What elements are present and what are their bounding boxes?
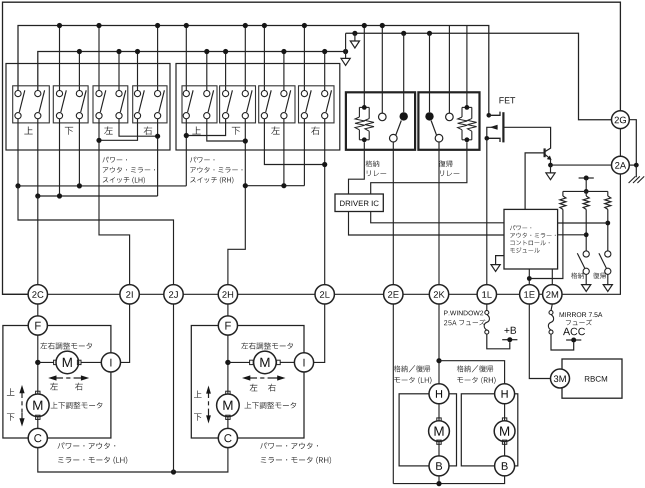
connector 2G bbox=[612, 111, 630, 129]
switch LH-上-2 bbox=[35, 91, 41, 97]
label : power outer mirror switch (RH) caption bbox=[190, 157, 215, 163]
wire : drop from bus A to return-relay coil bbox=[466, 26, 468, 106]
wire : drop from bus B to switch contact at x=119 bbox=[118, 52, 120, 91]
wire : bus to connector 2C (y=196) bbox=[38, 195, 158, 197]
wire : drop from bus A to switch contact at x=304.4 bbox=[303, 26, 305, 91]
wire : connector 2K down to H bus bbox=[438, 304, 440, 384]
label : RBCM bbox=[585, 376, 607, 382]
label 左 under LH box bbox=[104, 126, 112, 134]
switch RH-上-2 bbox=[204, 91, 210, 97]
connector 2K bbox=[429, 285, 448, 304]
resistor R1 bbox=[562, 191, 564, 196]
connector 3M bbox=[551, 369, 570, 388]
switch box LH-左 : contact pair box bbox=[93, 86, 128, 123]
label : up / down (RH) bbox=[194, 391, 202, 398]
wire : drop from bus B to switch contact at x=137.5 bbox=[137, 52, 139, 91]
label : MIRROR 7.5A fuse bbox=[560, 312, 603, 317]
wire : LH mirror-right contact down and across to left-adjust line bbox=[99, 119, 138, 141]
connector 2A bbox=[612, 156, 630, 174]
switch bank LH : outer box of power outer mirror switch (LH) bbox=[6, 64, 170, 151]
wire C : relay contact bus y=33.3 from bus B junction to connector 2G bbox=[345, 33, 347, 51]
relay K2 : return relay box bbox=[418, 92, 479, 150]
arrow : left-right travel arrow (LH) bbox=[54, 377, 84, 379]
wire : 2H to terminal F (RH) bbox=[227, 304, 229, 316]
switch box LH-上 : contact pair box bbox=[13, 86, 50, 123]
wire : switch drop to 2J bus bbox=[17, 119, 19, 186]
terminal F (LH) bbox=[28, 316, 47, 335]
node : junction on right-adjust line bbox=[155, 134, 160, 139]
switch RH-上-1 bbox=[183, 91, 189, 97]
IC U1 : DRIVER IC box bbox=[335, 194, 383, 212]
terminal H (RH) bbox=[495, 384, 515, 404]
switch LH-右-1 bbox=[134, 91, 140, 97]
module : storage/return motor (LH) box bbox=[399, 394, 456, 466]
wire : 2C feed line down to connector 2C bbox=[37, 196, 39, 285]
resistor R3 bbox=[607, 191, 609, 196]
wire : connector 2J down to C bus bbox=[173, 304, 175, 472]
terminal F (RH) bbox=[218, 316, 237, 335]
transistor Q1 : FET source stub bbox=[487, 138, 500, 142]
wire : FET source down to connector 1L bbox=[486, 138, 488, 284]
wire : hook from 2G to ground node bbox=[629, 120, 636, 165]
wire : switch drop to 2C bus at x=59.5 bbox=[59, 119, 61, 196]
contact : return relay movable arm bbox=[435, 134, 443, 142]
fuse F1 : P.WINDOW2 25A fuse below connector 1L bbox=[486, 304, 488, 311]
terminal H (LH) bbox=[429, 384, 449, 404]
node : branch to horizontal motor (RH) bbox=[225, 360, 230, 365]
wire : feed to resistor bus bbox=[585, 178, 587, 191]
label : DRIVER IC bbox=[340, 201, 379, 207]
wire : module to R2 node bbox=[558, 234, 587, 236]
connector 2C bbox=[28, 285, 47, 304]
arrow : up-down travel arrow (LH) bbox=[21, 391, 23, 420]
wire A : upper supply bus y=25.5 feeding switch contacts, ends at FET gate bbox=[18, 26, 489, 116]
label : storage/return motor (LH) bbox=[394, 365, 430, 372]
label : left-right adjust motor (RH) bbox=[241, 342, 293, 349]
wire : R2 lead down to return-position sense switch bbox=[585, 209, 587, 251]
switch RH-左-1 bbox=[261, 91, 267, 97]
wire : drop from wire C to storage-relay NO contact bbox=[401, 31, 406, 36]
motor M3 : left-right adjust motor (RH) bbox=[228, 361, 250, 363]
wire : F to C internal line (RH) bbox=[227, 335, 229, 428]
wire : B bus across bottom bbox=[393, 476, 504, 484]
label 上 under LH box bbox=[24, 127, 32, 135]
wire : connector 1E down to 3M bbox=[529, 304, 550, 379]
wire : M to B link (LH) bbox=[438, 441, 440, 456]
connector 2M bbox=[543, 285, 562, 304]
switch box LH-下 : contact pair box bbox=[53, 86, 88, 123]
label : control module caption bbox=[510, 225, 531, 230]
ground : chassis ground symbol bbox=[635, 165, 637, 177]
wire : 2C to terminal F bbox=[37, 304, 39, 316]
ground arrow : below storage sense switch bbox=[585, 274, 587, 284]
label 左 under RH box bbox=[271, 126, 279, 134]
wire : main power loop from 2C left side up across the top and down to connector 2G bbox=[3, 2, 621, 294]
module : power outer mirror control module box bbox=[504, 209, 558, 269]
switch LH-上-1 bbox=[15, 91, 21, 97]
wire : R3 lead down to storage-position sense switch bbox=[607, 209, 609, 251]
wire : RH bus y=185.7 between drive lines bbox=[245, 185, 304, 187]
wire : drop from bus B to switch contact at x=225.6 bbox=[225, 52, 227, 91]
switch bank RH : outer box of power outer mirror switch (RH) bbox=[176, 64, 340, 151]
wire : module to R3 node bbox=[558, 222, 608, 224]
wire : return relay arm down to connector 2K bbox=[438, 142, 440, 285]
resistor R2 bbox=[585, 191, 587, 196]
label : return relay bbox=[439, 160, 453, 167]
switch box LH-右 : contact pair box bbox=[133, 86, 167, 123]
connector 2H bbox=[218, 285, 237, 304]
wire : link between connectors 2G and 2A bbox=[619, 129, 621, 157]
switch RH-下-1 bbox=[223, 91, 229, 97]
terminal I (LH) bbox=[101, 353, 120, 372]
contact : storage relay NC terminal bbox=[379, 113, 387, 121]
label : up / down (LH) bbox=[7, 388, 15, 395]
label : left / right (RH) bbox=[250, 384, 258, 391]
wire : 2J bus down and right to connector 2J bbox=[18, 186, 174, 285]
connector 2I bbox=[120, 285, 139, 304]
terminal I (RH) bbox=[294, 353, 313, 372]
node : junction of mirror-right line on left-adjust line bbox=[96, 138, 101, 143]
wire : RH lower-left contact across to upper-left line bbox=[186, 119, 225, 136]
label : FET bbox=[500, 97, 516, 103]
module : power outer mirror motor (RH) box bbox=[191, 326, 304, 439]
wire : drop from bus A to switch contact at x=59.5 bbox=[59, 26, 61, 91]
wire : module pin to connector 2M bbox=[551, 269, 553, 285]
node : junction on RH upper-left line bbox=[184, 133, 189, 138]
wire : LH left-contact down and across to right-adjust line bbox=[119, 119, 158, 136]
switch box RH-上 : contact pair box bbox=[182, 86, 217, 123]
wire : module pin to connector 1E with branch node bbox=[528, 269, 530, 285]
wire : switch drop to 2J bus at x=79.4 bbox=[78, 119, 80, 186]
wire : connector 2E down to B bus bbox=[392, 304, 394, 484]
label : power outer mirror switch (LH) caption bbox=[103, 157, 128, 163]
motor M2 : up-down adjust motor (LH) bbox=[36, 391, 40, 395]
wire : DRIVER IC pin to control module (upper) bbox=[371, 212, 504, 223]
wire : R1 lead down then left to 1E node bbox=[529, 209, 563, 278]
label 右 under RH box bbox=[311, 126, 320, 134]
wire : LH left-adjust output line to jog toward connector 2I bbox=[99, 119, 130, 285]
wire : switch drop to 2C bus bbox=[37, 119, 39, 196]
terminal C (RH) bbox=[218, 428, 237, 447]
contact : return relay NO terminal bbox=[425, 112, 433, 120]
label 右 under LH box bbox=[144, 126, 153, 134]
motor M-RH : storage/return motor bbox=[502, 418, 506, 422]
motor M1 : left-right adjust motor (LH) bbox=[38, 361, 54, 363]
node : branch to horizontal motor bbox=[35, 360, 40, 365]
terminal C (LH) bbox=[28, 428, 47, 447]
wire : drop from bus A to switch contact at x=157.6 bbox=[157, 26, 159, 91]
contact : storage relay NO terminal bbox=[400, 112, 408, 120]
wire : drop from bus B to switch contact at x=206.8 bbox=[206, 52, 208, 91]
arrow : up-down travel arrow (RH) bbox=[208, 391, 210, 418]
wire : drop from bus B to switch contact at x=283.9 bbox=[283, 52, 285, 91]
wire : drop from bus A to storage-relay NC contact bbox=[381, 26, 383, 114]
switch box RH-右 : contact pair box bbox=[299, 86, 335, 123]
wire : emitter to connector 2A bbox=[550, 160, 552, 165]
switch : storage sense switch bbox=[583, 251, 589, 257]
wire : storage relay arm down to connector 2E bbox=[392, 142, 394, 285]
contact : storage relay movable arm bbox=[390, 134, 398, 142]
switch LH-下-2 bbox=[76, 91, 82, 97]
label : up-down adjust motor (LH) bbox=[51, 402, 103, 409]
wire : common C bus joining both mirror motors and connector 2J bbox=[38, 448, 228, 472]
wire : drop from bus A to return-relay NC contact bbox=[448, 26, 450, 114]
wire : H to M link (RH) bbox=[504, 404, 506, 421]
terminal B (LH) bbox=[429, 456, 449, 476]
wire : drop from bus A to switch contact at x=99 bbox=[98, 26, 100, 91]
motor M4 : up-down adjust motor (RH) bbox=[226, 391, 230, 395]
wire B : second supply bus y=51.5 feeding switch contacts bbox=[38, 52, 346, 91]
wire : terminal I to connector 2I bbox=[121, 304, 130, 362]
switch LH-左-1 bbox=[96, 91, 102, 97]
wire : LH right-adjust line down to bus toward 2C bbox=[157, 119, 159, 196]
switch LH-下-1 bbox=[56, 91, 62, 97]
wire : drop from bus A to switch contact at x=264.4 bbox=[263, 26, 265, 91]
fuse F2 : MIRROR 7.5A fuse below connector 2M bbox=[551, 304, 552, 311]
ground arrow : below bus B end bbox=[345, 52, 347, 59]
node : junction at right end of bus B bbox=[343, 49, 348, 54]
switch box RH-左 : contact pair box bbox=[259, 86, 295, 123]
label : power outer mirror motor (RH) caption bbox=[260, 442, 318, 449]
terminal : unlabeled supply bar feeding pull-up resistors bbox=[579, 177, 594, 179]
wire : fuse to ACC terminal bbox=[551, 334, 574, 350]
wire : transistor base to control module bbox=[525, 153, 545, 210]
wire : RH lower-right line down with jog to connector 2H bbox=[228, 119, 245, 285]
transistor Q1 : FET gate lead and plate bbox=[487, 113, 492, 118]
wire : M to B link (RH) bbox=[504, 441, 506, 456]
switch LH-左-2 bbox=[116, 91, 122, 97]
wire : H to M link (LH) bbox=[438, 404, 440, 421]
module : power outer mirror motor (LH) box bbox=[3, 326, 111, 439]
wire : drop from bus A to switch contact at x=245.3 bbox=[244, 26, 246, 91]
coil of return relay bbox=[462, 106, 472, 108]
contact : return relay NC terminal bbox=[446, 113, 454, 121]
label 上 under RH box bbox=[192, 127, 200, 135]
wire : return relay coil to DRIVER IC bbox=[371, 142, 467, 194]
switch : return sense switch bbox=[605, 251, 611, 257]
label 下 under RH box bbox=[232, 127, 240, 135]
wire : RH mirror-left contact drop to bus y=185.7 bbox=[303, 119, 305, 186]
motor M-LH : storage/return motor bbox=[437, 418, 441, 422]
label : P.WINDOW2 25A fuse bbox=[444, 311, 483, 316]
module : storage/return motor (RH) box bbox=[461, 394, 518, 466]
wire : DRIVER IC pin to control module (lower) bbox=[349, 212, 505, 236]
label : storage relay bbox=[366, 161, 380, 168]
wire : drop from bus B to switch contact at x=79.4 bbox=[78, 52, 80, 91]
wire : common bus to connector 2J (y=185.9) bbox=[18, 185, 186, 187]
label : left / right (LH) bbox=[50, 383, 58, 390]
ground arrow : below emitter node bbox=[550, 165, 552, 173]
label : return sense switch bbox=[593, 273, 606, 279]
switch RH-下-2 bbox=[242, 91, 248, 97]
wire : connector 2A down and left to connector 2M bbox=[562, 174, 620, 294]
connector 1L bbox=[477, 285, 496, 304]
connector 1E bbox=[520, 285, 539, 304]
switch RH-右-2 bbox=[322, 91, 328, 97]
label 下 under LH box bbox=[65, 127, 73, 135]
wire : drop from wire C to return-relay NO contact bbox=[427, 31, 432, 36]
wire : drop from bus A to switch contact at x=186.3 bbox=[185, 26, 187, 91]
label : storage/return motor (RH) bbox=[457, 365, 493, 372]
connector 2E bbox=[384, 285, 403, 304]
wire : fuse to +B terminal bbox=[487, 334, 510, 349]
wire : drop from bus B to switch contact at x=324.7 bbox=[324, 52, 326, 91]
connector 2L bbox=[315, 285, 334, 304]
wire : F to C internal line bbox=[37, 335, 39, 428]
transistor Q1 : FET channel bar bbox=[502, 112, 504, 142]
terminal +B bbox=[502, 339, 517, 341]
switch LH-右-2 bbox=[155, 91, 161, 97]
wire : RH contact drop to bus y=185.7 bbox=[283, 119, 285, 186]
wire : drop from bus A to storage-relay coil bbox=[363, 26, 365, 106]
switch box RH-下 : contact pair box bbox=[220, 86, 256, 123]
label : up-down adjust motor (RH) bbox=[245, 402, 297, 409]
wire : FET drain to transistor collector bbox=[503, 127, 550, 151]
wire : RH upper-right contact across to lower-right line bbox=[207, 119, 246, 141]
label : power outer mirror motor (LH) caption bbox=[58, 442, 116, 449]
connector 2J bbox=[164, 285, 183, 304]
terminal B (RH) bbox=[495, 456, 515, 476]
switch RH-右-1 bbox=[301, 91, 307, 97]
label : left-right adjust motor (LH) bbox=[40, 342, 92, 349]
switch RH-左-2 bbox=[281, 91, 287, 97]
coil of storage relay bbox=[359, 106, 369, 108]
wire : RH left-adjust contact across to 2L line bbox=[264, 119, 324, 165]
module : RBCM box bbox=[562, 359, 622, 398]
ground arrow : below return sense switch bbox=[607, 274, 609, 284]
wire : storage relay coil to DRIVER IC bbox=[349, 142, 365, 194]
wire : terminal I to connector 2L bbox=[314, 304, 325, 362]
wire : RH line down to connector 2L bbox=[324, 119, 326, 285]
wire : connector row bus bbox=[3, 293, 28, 295]
wire : H bus across to RH storage motor bbox=[439, 361, 505, 384]
transistor Q1 : FET body arrow stub bbox=[490, 125, 498, 130]
relay K1 : storage relay box bbox=[346, 92, 415, 150]
transistor Q2 : emitter with arrow bbox=[545, 154, 550, 158]
ground arrow : tap on wire C at x=354.9 bbox=[352, 31, 357, 36]
wire : RH upper-left line joining 2J bus bbox=[185, 119, 187, 186]
ground arrow : module left pin bbox=[496, 256, 504, 265]
wire : resistor top bus bbox=[563, 190, 608, 192]
transistor Q2 : bipolar transistor base bar bbox=[543, 148, 545, 157]
arrow : left-right travel arrow (RH) bbox=[248, 377, 280, 379]
terminal ACC bbox=[566, 339, 581, 341]
label : storage sense switch bbox=[571, 273, 584, 279]
